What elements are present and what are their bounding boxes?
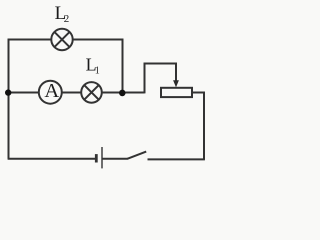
battery BT1 positive plate (long thin) — [101, 147, 103, 168]
wire: left rail from top-left corner down to bottom-left corner — [8, 39, 10, 159]
wire: bottom left segment from bottom-left corner to battery — [8, 158, 97, 160]
wire: rheostat slider arm (up, right, down to arrow) — [145, 64, 177, 94]
wire: top branch left segment from top-left corner to lamp L2 — [8, 39, 52, 41]
svg-text:1: 1 — [95, 66, 100, 77]
svg-text:2: 2 — [64, 13, 70, 25]
wire: battery to switch pivot — [102, 158, 128, 160]
switch S1 blade (open) — [127, 152, 146, 159]
lamp L1 — [81, 82, 102, 103]
wire: switch contact to bottom-right corner — [148, 158, 205, 160]
wire: right rail down to bottom-right corner — [203, 92, 205, 160]
node B junction dot — [119, 90, 126, 97]
svg-text:A: A — [44, 80, 59, 102]
battery BT1 negative plate (short thick) — [95, 154, 98, 162]
label L1 — [86, 55, 100, 77]
ammeter U1 — [39, 81, 62, 104]
wire: middle branch between ammeter and lamp L1 — [62, 92, 81, 94]
lamp L2 — [51, 29, 72, 50]
wire: top branch right segment from lamp L2 to top-right corner — [73, 39, 124, 41]
label L2 — [55, 3, 70, 25]
wire: middle branch from node A to ammeter — [9, 92, 39, 94]
node A junction dot — [5, 89, 11, 95]
rheostat R1 body — [161, 88, 192, 97]
wire: middle branch from lamp L1 through node B to slider riser — [102, 92, 145, 94]
rheostat wiper arrowhead — [173, 80, 179, 87]
wire: right vertical of L2 branch down to node B — [122, 39, 124, 93]
wire: rheostat right terminal to right rail — [192, 92, 205, 94]
